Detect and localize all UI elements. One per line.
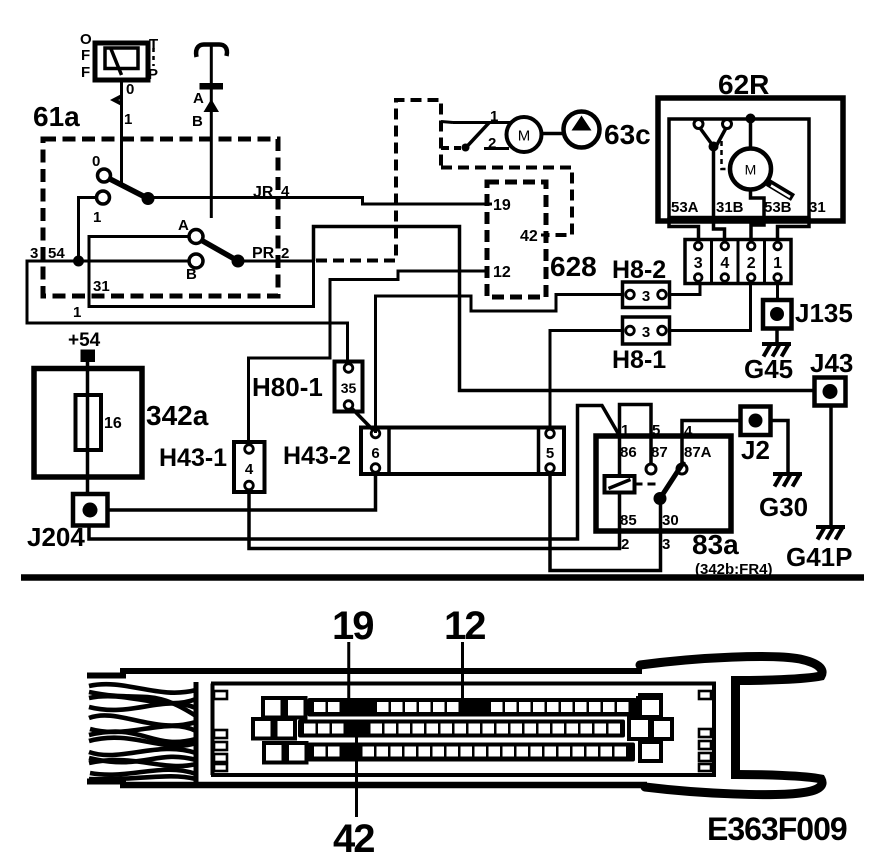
- pin row upper with pins 19 and 12 marked: [308, 698, 638, 717]
- svg-text:86: 86: [620, 444, 637, 461]
- wire bundle: [89, 684, 196, 779]
- connector bar H43-2: [361, 428, 564, 475]
- pin row lower: [308, 743, 636, 762]
- svg-text:G30: G30: [759, 492, 808, 522]
- svg-text:61a: 61a: [33, 101, 80, 132]
- svg-text:6: 6: [371, 445, 379, 462]
- svg-text:53A: 53A: [671, 199, 699, 216]
- connector fork bottom arm: [645, 775, 822, 795]
- svg-text:M: M: [518, 128, 531, 145]
- svg-text:0: 0: [92, 153, 100, 170]
- connector fork bar: [731, 676, 740, 779]
- park contact circle right: [723, 120, 732, 129]
- contact A circle: [189, 230, 203, 244]
- wire 31 to pin 1: [778, 218, 810, 241]
- fuse box 342a: [34, 369, 142, 478]
- svg-text:H8-1: H8-1: [612, 346, 666, 374]
- cam switch pin 2 line: [484, 147, 509, 150]
- ground G45: [762, 344, 791, 357]
- svg-text:16: 16: [104, 415, 122, 432]
- svg-text:5: 5: [652, 422, 660, 439]
- svg-text:5: 5: [546, 445, 554, 462]
- relay coil dashed link: [635, 483, 659, 486]
- wire ignition terminal 1 down to 61a switch arm: [120, 80, 123, 187]
- cam switch arm: [466, 123, 489, 148]
- svg-text:19: 19: [332, 604, 373, 648]
- inner housing right wall: [712, 684, 716, 776]
- svg-text:1: 1: [490, 108, 498, 125]
- wire J204 to relay pins 1-5: [89, 406, 619, 540]
- svg-text:83a: 83a: [692, 529, 739, 560]
- svg-text:4: 4: [281, 183, 290, 200]
- svg-text:J2: J2: [741, 435, 770, 465]
- ground G30: [773, 474, 802, 487]
- connector 6 circles: [371, 429, 380, 438]
- wire under 628 to H8-2: [376, 295, 624, 434]
- svg-text:2: 2: [621, 536, 629, 553]
- dashed mechanical link from PR to cam switch: [316, 100, 441, 261]
- dashed cam enclosure bottom: [441, 168, 572, 236]
- wire 53B to pin 2: [751, 218, 764, 241]
- svg-text:H8-2: H8-2: [612, 256, 666, 284]
- svg-text:30: 30: [662, 512, 679, 529]
- svg-text:JR: JR: [253, 184, 274, 201]
- svg-text:3: 3: [694, 255, 703, 272]
- right latch teeth: [699, 691, 711, 699]
- svg-text:J135: J135: [795, 298, 853, 328]
- svg-text:E363F009: E363F009: [707, 811, 847, 847]
- contact 0 circle: [98, 169, 111, 182]
- wire through fuse: [86, 362, 90, 494]
- left latch teeth: [214, 691, 227, 699]
- svg-text:H43-1: H43-1: [159, 444, 227, 472]
- svg-text:1: 1: [73, 304, 81, 321]
- dashed cam contact stub: [441, 146, 461, 150]
- plus cluster: [629, 695, 672, 761]
- wire motor bottom to 53B: [751, 190, 765, 218]
- svg-text:1: 1: [621, 422, 629, 439]
- svg-text:H80-1: H80-1: [252, 372, 323, 402]
- wire H80-1 to connector 6: [352, 408, 375, 431]
- wiper motor unit 62R box: [658, 98, 843, 221]
- svg-text:F: F: [81, 64, 90, 81]
- svg-text:628: 628: [550, 251, 597, 282]
- park contact circle left: [694, 120, 703, 129]
- splice J135: [763, 300, 792, 329]
- wire 54 feed to H80-1: [27, 261, 348, 362]
- junction dot node 54: [73, 256, 84, 267]
- connector H43-1: [234, 442, 265, 492]
- svg-text:O: O: [80, 31, 92, 48]
- svg-text:A: A: [178, 217, 189, 234]
- svg-text:4: 4: [720, 255, 729, 272]
- svg-text:1: 1: [93, 209, 101, 226]
- ground G41P: [816, 527, 845, 540]
- svg-text:M: M: [745, 162, 757, 178]
- separator line: [21, 574, 864, 581]
- svg-text:1: 1: [124, 111, 132, 128]
- cable sheath top: [87, 673, 126, 679]
- svg-text:2: 2: [747, 255, 756, 272]
- svg-text:62R: 62R: [718, 69, 769, 100]
- wire pin 2 to H43-1: [249, 489, 620, 549]
- svg-text:B: B: [192, 113, 203, 130]
- svg-text:53B: 53B: [764, 199, 792, 216]
- motor drive handle: [768, 183, 793, 198]
- svg-text:342a: 342a: [146, 400, 209, 431]
- wire motor to pump: [541, 132, 564, 136]
- connector housing top edge: [120, 668, 642, 674]
- wire J43 to ground G41P: [829, 406, 833, 527]
- contact 87A circle: [677, 464, 687, 474]
- cam switch pin 1 line: [453, 121, 510, 124]
- connector block pins 3 4 2 1: [685, 240, 791, 284]
- switch unit 61a dashed box: [43, 139, 278, 296]
- svg-text:85: 85: [620, 512, 637, 529]
- inner housing bottom edge: [211, 773, 716, 777]
- wire 62R top to motor: [749, 119, 753, 149]
- svg-text:4: 4: [684, 423, 693, 440]
- connector 5 circles: [546, 429, 555, 438]
- leader line 42: [355, 737, 358, 817]
- svg-text:31: 31: [809, 199, 826, 216]
- wire H8-2 to pin 3: [670, 284, 701, 295]
- svg-text:P: P: [148, 66, 158, 83]
- svg-text:G45: G45: [744, 354, 793, 384]
- wire 87A to J2: [682, 421, 741, 465]
- 62R inner plate: [669, 119, 809, 218]
- dashed link to motor 62R: [722, 141, 731, 169]
- svg-text:2: 2: [281, 245, 289, 262]
- connector H80-1: [335, 362, 363, 412]
- wire J2 to ground G30: [771, 421, 789, 474]
- wire J135 to ground: [775, 329, 779, 344]
- svg-text:19: 19: [493, 197, 511, 214]
- connector 628 dashed box: [487, 182, 546, 297]
- svg-text:2: 2: [488, 135, 496, 152]
- wire 53A to pin 3: [669, 218, 699, 241]
- svg-text:F: F: [81, 47, 90, 64]
- wire pin1 pin5 bridge: [620, 405, 652, 465]
- wire H8-1 to connector 5: [550, 331, 623, 430]
- ignition switch symbol: [80, 31, 158, 83]
- svg-text:54: 54: [48, 245, 65, 262]
- motor M circle 62R: [730, 149, 771, 190]
- wire PR node to J43: [314, 227, 815, 391]
- svg-text:0: 0: [126, 81, 134, 98]
- connector H8-2: [623, 282, 670, 308]
- cable sheath bottom: [87, 779, 126, 785]
- connector fork top arm: [640, 657, 822, 681]
- wire 628 pin 12 to H43-1: [249, 271, 488, 445]
- contact B circle: [189, 254, 203, 268]
- svg-text:4: 4: [245, 461, 254, 478]
- connector housing bottom edge: [120, 782, 647, 789]
- svg-text:G41P: G41P: [786, 542, 853, 572]
- svg-text:3: 3: [642, 288, 650, 305]
- pin row middle with pin 42 marked: [298, 720, 625, 738]
- svg-text:12: 12: [444, 604, 485, 648]
- wire pin 1 to J135: [776, 284, 779, 301]
- wire H8-1 to pin 2: [670, 284, 751, 331]
- svg-text:31: 31: [93, 278, 110, 295]
- washer motor M circle: [507, 117, 542, 152]
- wire terminal 31 loop (A contact to PR node): [89, 237, 314, 307]
- svg-text:35: 35: [341, 380, 357, 396]
- wire connector 6 to J204: [108, 474, 376, 510]
- svg-text:12: 12: [493, 264, 511, 281]
- wire contact 1 to node 54: [79, 198, 97, 262]
- inner housing top edge: [211, 682, 716, 686]
- guide square cluster: [253, 698, 307, 763]
- connector H8-1: [623, 317, 670, 344]
- splice J2: [741, 407, 771, 436]
- splice J204: [73, 494, 108, 526]
- wire JR 4 to connector 628 pin 19: [148, 198, 492, 205]
- bundle right wall: [194, 682, 199, 784]
- contact 1 circle: [97, 191, 110, 204]
- svg-text:3: 3: [642, 324, 650, 341]
- wire coil vertical 86-85: [618, 436, 622, 476]
- svg-text:1: 1: [773, 255, 782, 272]
- wiper arm symbol: [192, 44, 227, 218]
- contact 87 circle: [646, 464, 656, 474]
- switch arm A-PR: [201, 240, 238, 261]
- relay 83a box: [596, 436, 731, 531]
- wire PR 2: [238, 260, 314, 263]
- leader line 19: [347, 642, 350, 703]
- leader line 12: [461, 642, 464, 703]
- svg-text:87A: 87A: [684, 444, 712, 461]
- splice J43: [815, 378, 846, 406]
- svg-text:J43: J43: [810, 348, 853, 378]
- end square: [638, 698, 661, 718]
- park switch V arm: [700, 128, 714, 147]
- junction dot 62R top: [746, 114, 756, 124]
- svg-text:PR: PR: [252, 245, 275, 262]
- svg-text:B: B: [186, 266, 197, 283]
- svg-text:H43-2: H43-2: [283, 442, 351, 470]
- svg-text:3: 3: [30, 245, 38, 262]
- relay coil: [605, 476, 635, 493]
- washer pump symbol: [564, 112, 600, 148]
- svg-text:42: 42: [520, 228, 538, 245]
- wire 31B to pin 4: [714, 147, 725, 241]
- svg-text:A: A: [193, 90, 204, 107]
- svg-text:31B: 31B: [716, 199, 744, 216]
- relay arm 30-87A: [660, 462, 684, 499]
- svg-text:+54: +54: [68, 330, 101, 351]
- svg-text:63c: 63c: [604, 119, 651, 150]
- svg-text:87: 87: [651, 444, 668, 461]
- connector arrow on ignition wire: [110, 94, 123, 107]
- fuse 16 symbol: [76, 395, 102, 450]
- svg-text:J204: J204: [27, 522, 85, 552]
- inner housing left wall: [211, 684, 215, 776]
- svg-text:42: 42: [333, 817, 374, 861]
- switch arm 0-JR: [108, 178, 148, 199]
- svg-text:3: 3: [662, 536, 670, 553]
- wire pin 3 to connector 5: [550, 472, 661, 571]
